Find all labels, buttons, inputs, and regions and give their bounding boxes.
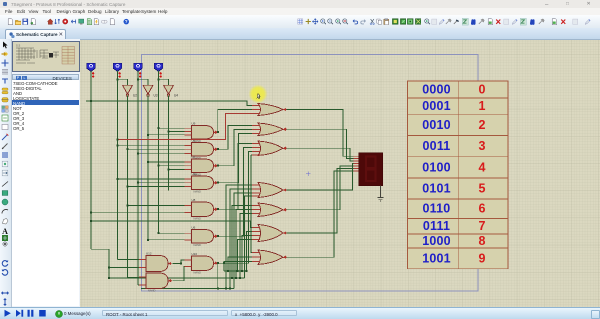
wire OR out to display pin 2 [287,129,354,158]
wire U6 out to OR3 in B [218,148,252,237]
svg-text:0111: 0111 [423,219,450,233]
wire tap [138,152,185,154]
svg-text:0: 0 [479,83,486,97]
svg-text:0000: 0000 [422,83,451,97]
svg-text:4: 4 [479,160,486,174]
svg-text:NAND: NAND [194,243,201,247]
OR gate OR6 [258,225,287,242]
wire to OR6 in D [238,240,253,272]
junction [158,232,160,234]
wire LS2 output [117,71,119,80]
junction [168,131,170,133]
junction [217,182,219,184]
svg-text:0010: 0010 [422,118,451,132]
junction [117,78,119,80]
junction [90,220,92,222]
svg-text:U7: U7 [192,155,196,159]
NAND gate U10 [192,252,218,275]
wire to U13 input A [128,277,140,279]
wire to OR6 in C [242,236,252,272]
wire to U13 input B [138,284,139,286]
svg-text:U3: U3 [154,94,158,98]
svg-text:NAND: NAND [148,289,155,293]
junction [225,288,227,290]
wire tap [148,239,185,241]
7-segment display [359,153,383,186]
wire to OR6 in B [247,232,253,272]
wire shared net OR3 in D / OR7 in A [251,155,252,253]
wire U5 out to OR2 in A [218,126,252,150]
junction [147,134,149,136]
junction [237,270,239,272]
wire rail G [168,96,170,191]
svg-text:U2: U2 [133,94,137,98]
wire to NOT U2 input [118,79,128,85]
junction [235,277,237,279]
NOT gate U2 [123,85,138,97]
NAND gate U11 [192,172,218,194]
wire U10 out down to bus 1 [217,263,219,288]
wire U12 out to U10 in A [173,260,185,264]
wire to OR5 in C [240,214,252,279]
svg-text:2: 2 [479,118,486,132]
logicstate input 3 [134,63,142,77]
svg-text:9: 9 [479,251,486,265]
junction [246,270,248,272]
wire tap [118,178,185,180]
junction [117,144,119,146]
wire to OR5 in B [236,210,252,279]
wire tap [169,169,185,171]
svg-text:0100: 0100 [422,160,451,174]
wire rail C [127,96,129,278]
svg-text:U8: U8 [192,198,196,202]
svg-text:0001: 0001 [422,99,451,113]
wire bottom bus 1 [141,288,234,290]
wire to U12 input A [118,259,140,261]
junction [90,100,92,102]
wire OR out to display pin 7 [287,171,354,257]
wire to U12 input B [91,249,139,267]
junction [239,277,241,279]
wire tap [128,148,185,150]
sheet border [142,55,479,292]
NAND gate U8 [192,198,218,221]
junction [217,288,219,290]
wire LS4 output [158,71,160,80]
svg-text:U12: U12 [146,252,152,256]
wire LS3 output [137,71,139,80]
wire OR out to display pin 4 [287,164,354,190]
logicstate input 2 [113,63,121,77]
wire U13 out to U10 in B [173,267,185,281]
junction [217,235,219,237]
junction [217,262,219,264]
svg-text:1000: 1000 [422,234,451,248]
NAND gate U12 [146,252,172,276]
wire to OR4 in C [234,193,252,289]
wire tap [91,211,185,213]
OR gate OR5 [258,203,287,217]
wire red net to OR1 in C [118,114,253,140]
junction [217,131,219,133]
wire to OR4 in B [230,189,252,289]
wire rail ext down to bus 2 [108,268,110,279]
junction [158,165,160,167]
wire bottom bus 2 [109,277,245,279]
NOT gate U3 [143,85,158,97]
junction [117,178,119,180]
junction [227,270,229,272]
wire rail D [137,79,139,285]
junction [137,78,139,80]
svg-text:7: 7 [479,219,486,233]
junction [137,182,139,184]
junction [127,186,129,188]
wire bottom bus 3 [224,263,247,271]
junction [147,161,149,163]
wire tap [138,182,185,184]
NAND gate U5 [192,139,218,161]
wire U8 out to OR3 in A [218,144,252,210]
cursor highlight [249,85,268,104]
junction [217,165,219,167]
OR gate OR7 [258,250,287,265]
truth table [408,81,509,269]
junction [223,262,225,264]
svg-text:0101: 0101 [422,181,451,195]
svg-text:U9: U9 [192,122,196,126]
wire U11 out to OR2 in C [218,134,252,183]
wire U10 out to OR3 in C [218,152,252,264]
junction [158,78,160,80]
origin marker [306,171,311,176]
wire to NOT U3 input [138,79,148,85]
svg-text:1: 1 [479,99,486,113]
NAND gate U9 [192,122,218,144]
svg-text:U11: U11 [192,172,198,176]
wire to OR7 in B [228,257,252,271]
wire to OR7 in C [224,262,252,272]
wire OR out to display pin 6 [287,168,354,233]
NOT gate U4 [164,85,179,97]
junction [168,169,170,171]
junction [241,270,243,272]
wire rail B [117,79,119,259]
wire to OR5 in A [232,206,252,279]
wire bus to OR1 input A [86,101,252,106]
OR gate OR1 [258,104,287,116]
svg-text:U10: U10 [192,252,198,256]
wire to OR4 in D [245,196,253,278]
junction red net [117,139,119,141]
logicstate input 4 [154,63,162,77]
wire tap [169,131,185,133]
wire tap [159,127,185,129]
svg-text:6: 6 [479,202,486,216]
svg-text:8: 8 [479,234,486,248]
wire OR out to display pin 5 [287,166,354,210]
wire OR out to display pin 1 [287,110,354,157]
svg-text:NAND: NAND [194,217,201,221]
wire rail E [147,96,149,240]
junction [217,208,219,210]
svg-text:1001: 1001 [422,251,451,265]
wire U9 out to OR1 in B [218,110,252,133]
svg-text:S.S: S.S [16,44,20,48]
wire tap [159,165,185,167]
svg-text:NAND: NAND [194,190,201,194]
OR gate OR3 [258,141,287,156]
junction [229,288,231,290]
svg-text:5: 5 [479,181,486,195]
wire to OR4 in A [226,185,252,289]
junction [127,204,129,206]
junction [108,267,110,269]
wire rail A to OR6 in A [91,221,252,228]
wire U7 out to OR2 in B [218,130,252,166]
junction [217,148,219,150]
wire rail A [90,79,92,249]
NAND gate U12 body redraw [146,256,168,272]
wire tap [148,134,185,136]
ground [377,186,383,202]
logicstate input 1 [87,63,95,77]
wire OR out to display pin 3 [287,148,354,161]
junction [158,127,160,129]
NAND gate U13 [146,269,172,293]
junction [231,277,233,279]
grid background [80,39,600,308]
svg-text:U6: U6 [192,226,196,230]
wire tap [118,144,185,146]
wire LS1 output [90,71,92,80]
svg-text:?: ? [125,19,128,24]
wire rail F [158,79,160,233]
wire to NOT U4 input [159,79,169,85]
svg-text:0110: 0110 [423,202,451,216]
junction [90,211,92,213]
NAND gate U7 [192,155,218,177]
junction [127,148,129,150]
svg-text:U4: U4 [174,94,178,98]
junction [147,239,149,241]
junction [108,277,110,279]
svg-text:NAND: NAND [194,271,201,275]
NAND gate U13 body redraw [146,273,168,289]
NAND gate U6 [192,226,218,248]
svg-text:3: 3 [479,139,486,153]
svg-text:0011: 0011 [423,139,451,153]
wire tap [128,186,185,188]
OR gate OR2 [258,123,287,136]
junction [137,152,139,154]
wire tap [148,161,185,163]
junction [180,263,182,265]
wire tap [128,204,185,206]
OR gate OR4 [258,183,287,198]
wire tap [159,232,185,234]
